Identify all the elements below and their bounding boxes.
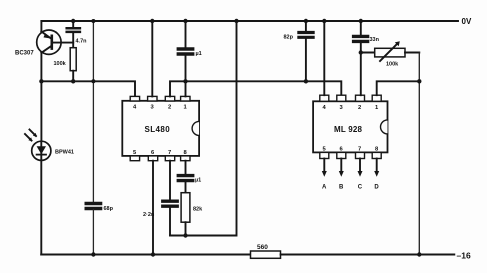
op-amp U1 SL480 body [122,101,199,156]
wire -16 bottom rail right segment [281,254,455,256]
node pot tap junction [359,50,363,54]
svg-text:µ1: µ1 [196,51,202,57]
wire U1 pin 7 down [169,161,171,200]
wire u1 cap to U1 pin 1 [185,55,187,96]
svg-text:7: 7 [168,150,171,156]
node U2 pin4 rail junction [322,19,326,23]
node u1 cap top rail junction [183,19,187,23]
svg-text:A: A [322,185,327,191]
svg-text:ML 928: ML 928 [334,125,363,134]
pin numbers U1 top [133,105,188,111]
transistor Q1 BC307 [15,30,61,57]
pin numbers U2 top [323,105,380,111]
node signal junction at cap column [183,79,187,83]
svg-text:2·2n: 2·2n [143,212,155,218]
node 82p signal junction [304,79,308,83]
wire 82p to signal line [305,39,307,82]
wire U1 pin 8 down [185,161,187,174]
wire pot right vertical to -16 rail [418,53,420,255]
node right vertical signal junction [417,79,421,83]
svg-text:2: 2 [358,105,361,111]
wire 33n to U2 pin 2 [360,42,362,95]
node loop junction [183,233,187,237]
resistor 82k [181,193,203,223]
svg-text:560: 560 [257,244,268,251]
capacitor u1 coupling [178,21,201,57]
svg-text:µ1: µ1 [195,178,201,184]
output arrow B [339,159,344,191]
wire photodiode to bottom rail [40,160,42,254]
node right vertical rail junction [417,252,421,256]
node collector junction [39,79,43,83]
svg-text:82p: 82p [284,35,294,41]
wire base line [53,42,73,44]
wire 0V top rail [41,20,458,22]
pin numbers U1 bottom [133,150,188,156]
pin boxes U2 top [320,95,381,101]
svg-text:2: 2 [168,105,171,111]
svg-text:–16: –16 [457,251,471,261]
output arrow D [374,159,379,191]
node 68p bottom rail junction [91,252,95,256]
photodiode D1 BPW41 [25,81,74,160]
node 68p bias junction [91,79,95,83]
wire 68p column lower [92,210,94,255]
capacitor 82p [284,21,314,41]
svg-text:100k: 100k [54,61,67,67]
node 68p top rail junction [91,19,95,23]
pin boxes U2 bottom [320,152,381,158]
wire 82k to loop [185,222,187,235]
potentiometer 100k [361,41,420,67]
wire -16 bottom rail left segment [41,254,250,256]
svg-text:0V: 0V [462,17,472,26]
wire emitter to 0V rail [40,21,42,32]
capacitor u1 pin8 [178,176,201,184]
node 4.7n top junction [71,19,75,23]
pin boxes U1 bottom [130,156,190,161]
wire U2 pin 4 to 0V rail [323,21,325,95]
pin boxes U1 top [130,96,190,101]
wire collector down to junction [40,53,42,82]
wire cap to 82k [185,182,187,193]
node pin3 rail junction [150,19,154,23]
wire bias line to SL480 pin 4 [41,81,135,97]
wire U1 pin 3 to 0V rail [151,21,153,96]
op-amp U2 ML928 body [313,101,387,152]
svg-text:68p: 68p [104,206,114,212]
svg-text:7: 7 [358,147,361,153]
svg-text:D: D [374,185,379,191]
resistor R 100k [54,48,77,71]
node 100k bottom junction [71,79,75,83]
node 82p top rail junction [304,19,308,23]
wire U2 pin 1 branch [377,81,420,95]
capacitor 2.2n [143,201,177,218]
svg-text:BC307: BC307 [15,51,34,57]
wire 68p column upper [92,21,94,202]
svg-text:B: B [339,185,344,191]
wire 2.2n to loop [169,207,171,235]
output arrow C [358,159,363,191]
wire decoupling loop to 0V rail [170,21,237,236]
node loop top rail junction [234,19,238,23]
resistor 560 [251,244,281,258]
wire U1 pin 6 to -16 rail [152,161,154,255]
capacitor 4.7n [67,21,87,48]
svg-text:33n: 33n [370,37,380,43]
capacitor 33n [354,21,380,43]
svg-text:100k: 100k [386,62,399,68]
capacitor 68p [86,204,113,213]
svg-text:4.7n: 4.7n [76,39,88,45]
wire 100k bottom stub [72,71,74,82]
node 33n top rail junction [359,19,363,23]
svg-text:C: C [358,185,363,191]
node pin6 rail junction [151,252,155,256]
output arrow A [322,159,327,191]
wire signal line pin2 to ML928 pin3 [170,81,341,96]
svg-text:BPW41: BPW41 [55,150,74,156]
svg-text:SL480: SL480 [145,125,171,134]
svg-text:82k: 82k [193,207,203,213]
pin numbers U2 bottom [323,147,380,153]
